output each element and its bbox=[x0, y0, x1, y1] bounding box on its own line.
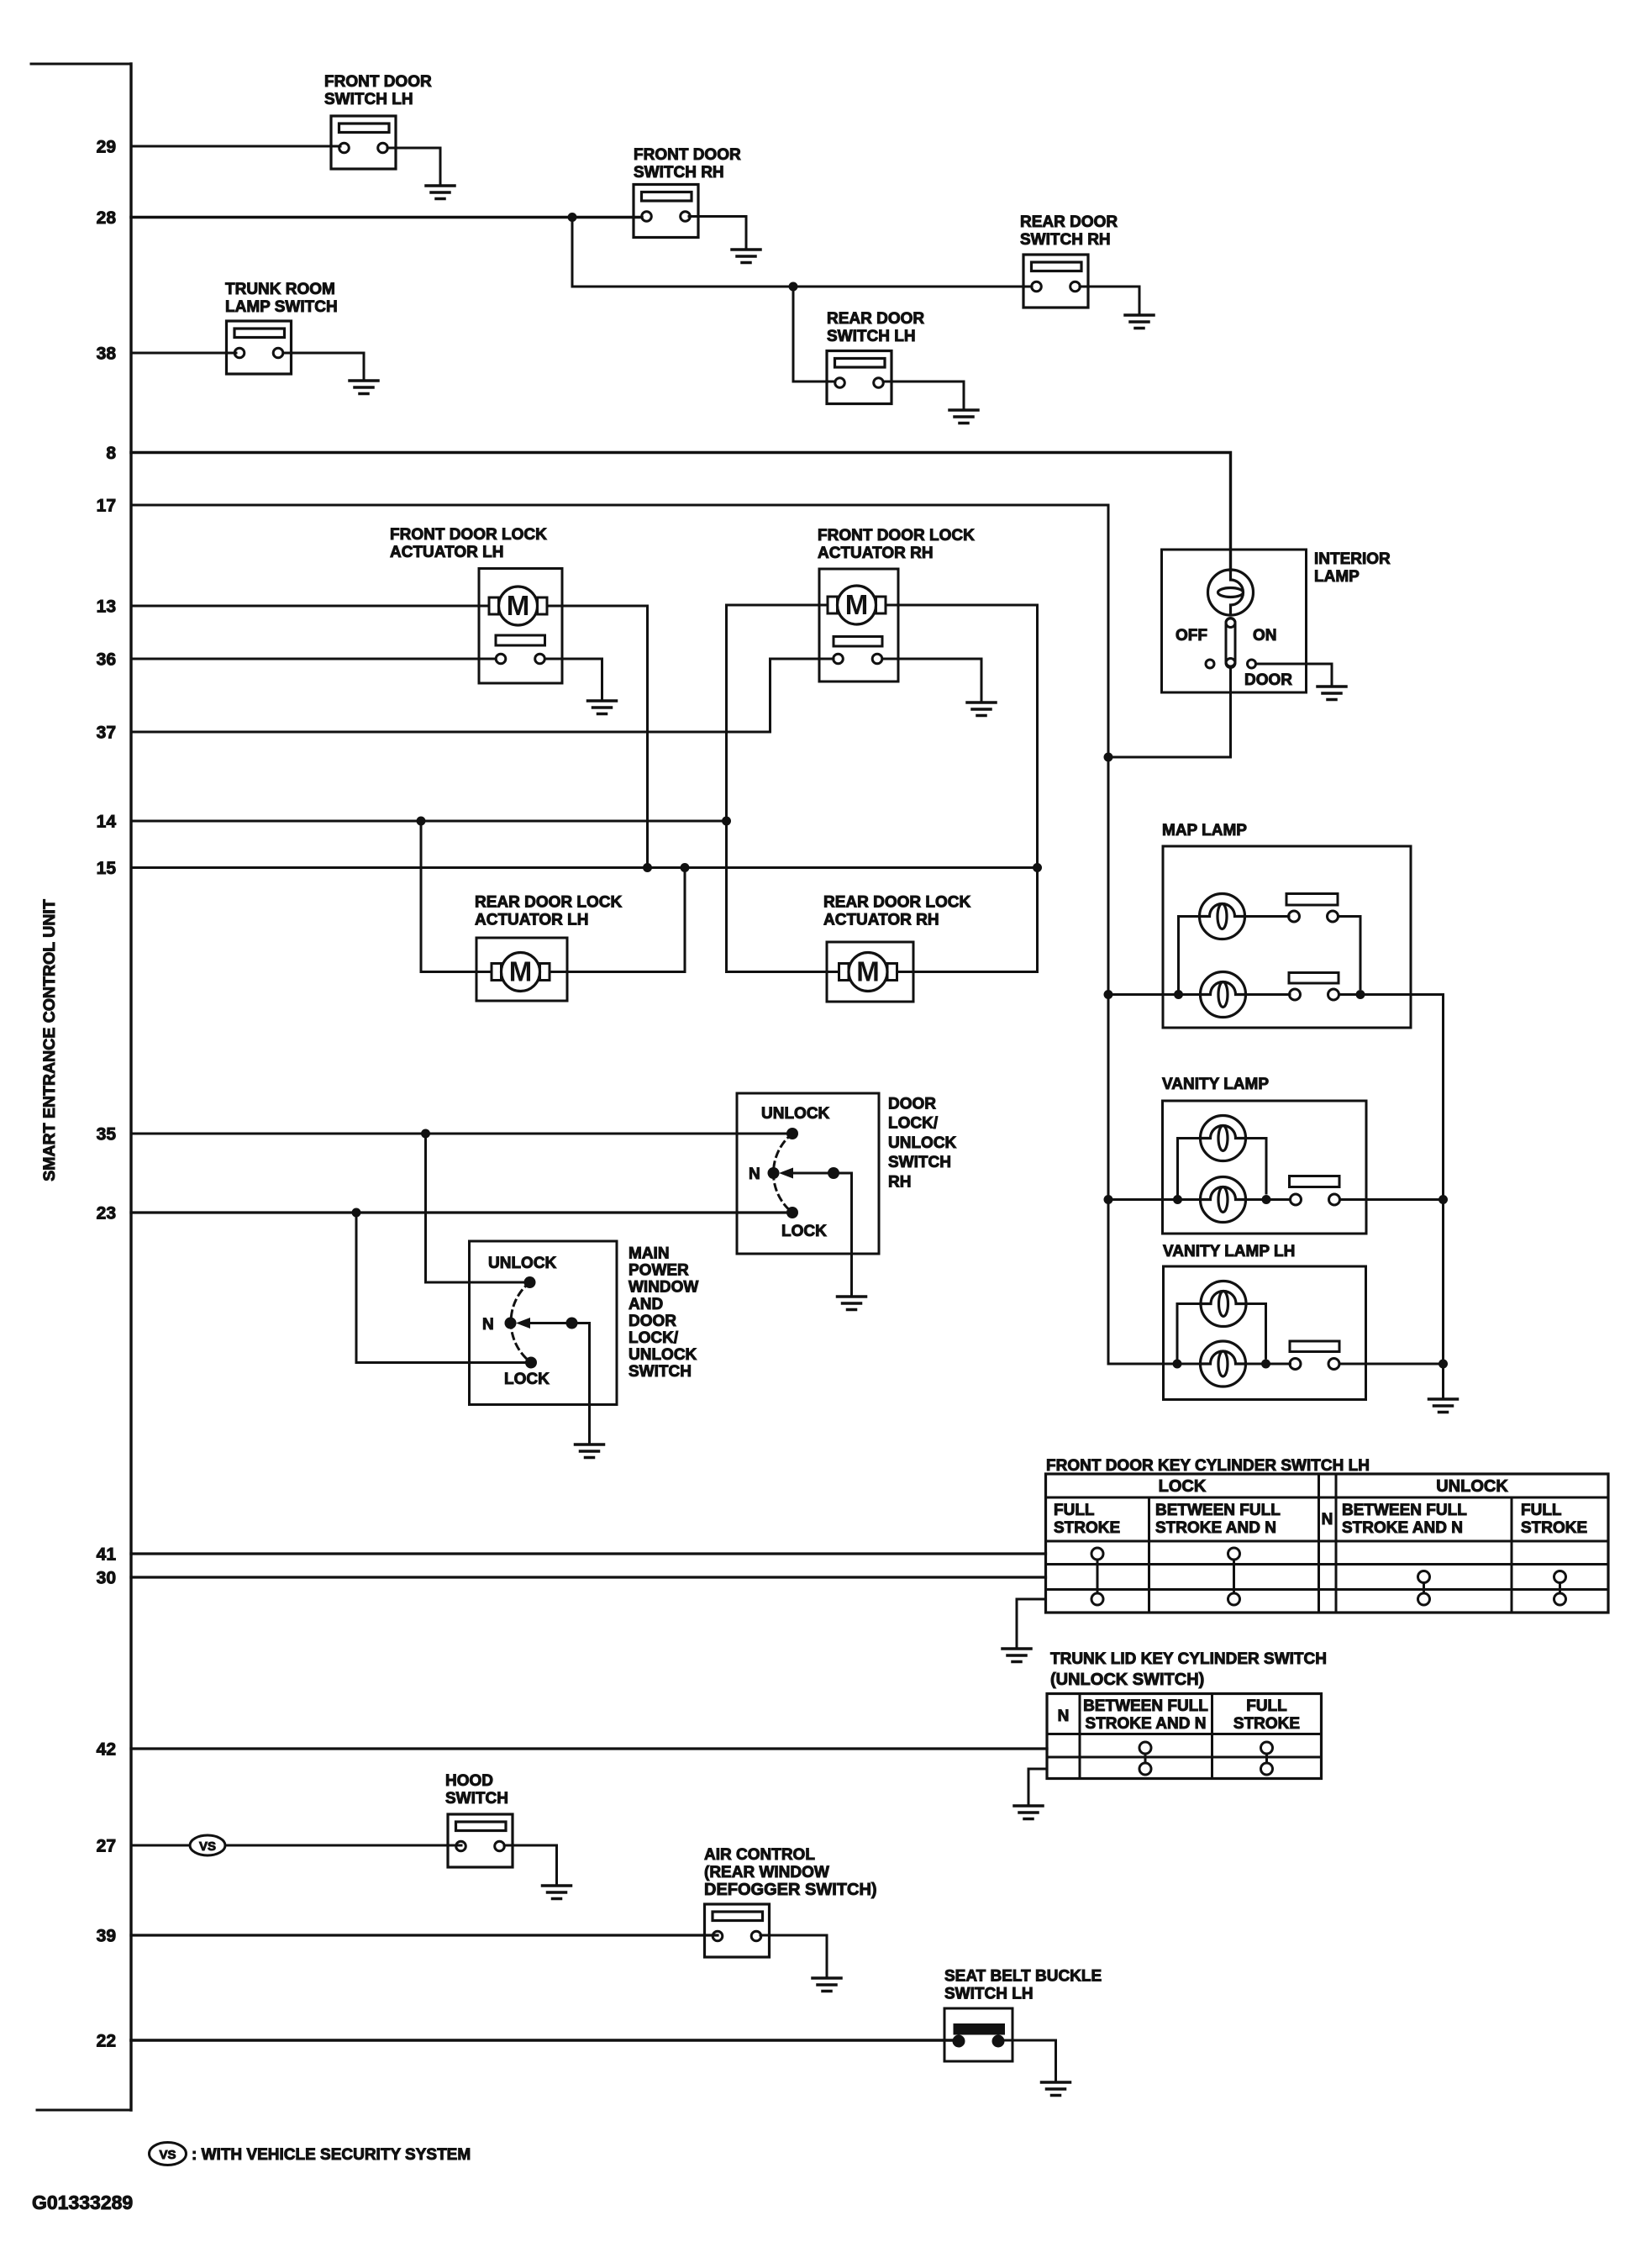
svg-text:: WITH VEHICLE SECURITY SYSTEM: : WITH VEHICLE SECURITY SYSTEM bbox=[192, 2146, 471, 2164]
node vanity LH bulb split bbox=[1173, 1360, 1182, 1369]
wire interior lamp ON contact to ground bbox=[1256, 664, 1332, 684]
key cylinder contact links bbox=[1097, 1560, 1099, 1593]
svg-text:MAP LAMP: MAP LAMP bbox=[1162, 822, 1247, 839]
ground G1 bbox=[426, 186, 455, 199]
switch RH contact LOCK bbox=[786, 1207, 798, 1218]
wire actuator LH contact to ground bbox=[545, 659, 602, 698]
motor M2 bbox=[828, 586, 886, 624]
svg-text:BETWEEN FULL: BETWEEN FULL bbox=[1083, 1697, 1208, 1715]
svg-text:39: 39 bbox=[97, 1927, 116, 1946]
svg-text:FRONT DOOR: FRONT DOOR bbox=[634, 146, 741, 164]
vanity lamp bulb B1 bbox=[1201, 1116, 1246, 1161]
key cylinder table frame bbox=[1046, 1474, 1609, 1613]
svg-text:LAMP: LAMP bbox=[1314, 568, 1360, 586]
key cylinder table column lines bbox=[1148, 1497, 1150, 1613]
node vanity bulb B1 join bbox=[1262, 1195, 1271, 1204]
node vanity LH bulb B1 join bbox=[1261, 1360, 1270, 1369]
wire front door switch LH to ground bbox=[387, 148, 440, 183]
svg-text:42: 42 bbox=[97, 1740, 116, 1760]
map lamp switch 1 contacts bbox=[1289, 911, 1300, 922]
wire motor M2 right lead down to line 15 bbox=[886, 605, 1038, 972]
svg-text:ACTUATOR RH: ACTUATOR RH bbox=[823, 912, 939, 929]
svg-text:FRONT DOOR LOCK: FRONT DOOR LOCK bbox=[390, 526, 547, 544]
wire branch line 28 down to rear door switches bbox=[572, 218, 1032, 287]
svg-text:REAR DOOR LOCK: REAR DOOR LOCK bbox=[475, 894, 623, 912]
rear door switch LH body bbox=[827, 351, 892, 404]
svg-text:TRUNK LID KEY CYLINDER SWITCH: TRUNK LID KEY CYLINDER SWITCH bbox=[1050, 1650, 1327, 1668]
legend VS symbol bbox=[150, 2143, 187, 2165]
wire trunk lid switch to ground bbox=[1028, 1769, 1047, 1803]
wire motor M3 to line 15 bbox=[550, 868, 685, 972]
interior lamp bulb bbox=[1208, 570, 1254, 615]
node line15 - front LH actuator bbox=[643, 863, 652, 872]
bus bottom stub bbox=[37, 2109, 131, 2112]
svg-text:UNLOCK: UNLOCK bbox=[488, 1255, 557, 1272]
wire pin 27 to VS connector bbox=[131, 1844, 190, 1847]
node lamp rail top bbox=[1104, 753, 1113, 762]
motor M4 bbox=[839, 953, 897, 992]
vanity LH switch contacts bbox=[1290, 1359, 1301, 1370]
wire vanity LH bulb B1 down bbox=[1246, 1304, 1266, 1359]
trunk lid contacts row 2 bbox=[1139, 1763, 1151, 1775]
trunk lid contacts row 1 bbox=[1139, 1742, 1151, 1754]
svg-text:POWER: POWER bbox=[629, 1262, 689, 1280]
vanity lamp box bbox=[1163, 1101, 1367, 1234]
ground G3 bbox=[1125, 315, 1154, 329]
svg-text:SWITCH: SWITCH bbox=[888, 1154, 951, 1171]
wire motor M2 left lead down to rear actuator RH bbox=[727, 605, 828, 972]
key cylinder contacts row 3 bbox=[1091, 1593, 1103, 1605]
svg-text:VS: VS bbox=[159, 2148, 176, 2162]
svg-text:17: 17 bbox=[97, 497, 116, 516]
wire air control switch to ground bbox=[760, 1935, 827, 1976]
svg-text:M: M bbox=[509, 956, 533, 987]
interior lamp switch lever bbox=[1226, 618, 1235, 666]
right collector rail lower bbox=[1442, 1200, 1444, 1365]
wire key cylinder switch to ground bbox=[1017, 1599, 1046, 1646]
interior lamp ON contact bbox=[1248, 660, 1256, 668]
wire pin 37 to actuator RH contact bbox=[131, 659, 834, 732]
svg-text:23: 23 bbox=[97, 1204, 116, 1223]
svg-text:UNLOCK: UNLOCK bbox=[629, 1346, 697, 1364]
vanity LH bulb B1 bbox=[1201, 1281, 1246, 1327]
ground G12 bbox=[1002, 1649, 1031, 1662]
ground G7 bbox=[967, 703, 996, 716]
front door lock actuator LH box bbox=[479, 569, 562, 684]
trunk lid table frame bbox=[1047, 1694, 1322, 1779]
switch RH wiper arm with arrow bbox=[786, 1172, 834, 1175]
svg-text:VANITY LAMP: VANITY LAMP bbox=[1162, 1076, 1269, 1093]
node line23 bbox=[352, 1208, 361, 1218]
svg-text:OFF: OFF bbox=[1176, 627, 1207, 645]
vanity LH bulb B2 bbox=[1201, 1341, 1246, 1387]
svg-text:REAR DOOR: REAR DOOR bbox=[827, 310, 924, 328]
vanity lamp bulb B2 bbox=[1201, 1177, 1246, 1223]
svg-text:REAR DOOR LOCK: REAR DOOR LOCK bbox=[823, 894, 971, 912]
svg-text:M: M bbox=[845, 589, 869, 620]
front door lock actuator RH box bbox=[819, 569, 898, 681]
wire map lamp upper branch bbox=[1179, 917, 1201, 995]
wire pin 38 to trunk room lamp switch bbox=[131, 352, 236, 355]
svg-text:30: 30 bbox=[97, 1569, 116, 1588]
map lamp switch 2 contacts bbox=[1290, 989, 1301, 1000]
wire vanity bulb B2 to switch bbox=[1246, 1198, 1291, 1201]
ground G14 bbox=[543, 1886, 571, 1899]
wire vanity LH row to ground junction bbox=[1339, 1363, 1444, 1366]
svg-text:N: N bbox=[749, 1166, 760, 1183]
hood switch body bbox=[448, 1814, 513, 1867]
wire pin 8 to interior lamp bbox=[131, 453, 1231, 571]
rear door switch RH body bbox=[1023, 255, 1088, 308]
wire pin 13 to front door lock actuator LH motor bbox=[131, 605, 489, 608]
wire main switch wiper to ground bbox=[572, 1323, 590, 1443]
svg-text:SWITCH RH: SWITCH RH bbox=[634, 164, 724, 182]
map lamp bulb B2 bbox=[1201, 972, 1246, 1018]
svg-text:UNLOCK: UNLOCK bbox=[1436, 1477, 1508, 1496]
svg-text:STROKE: STROKE bbox=[1521, 1519, 1587, 1537]
wire pin 30 to key cylinder switch bbox=[131, 1576, 1046, 1578]
wire pin 22 to seat belt buckle switch bbox=[131, 2039, 953, 2042]
front door switch RH body bbox=[634, 185, 698, 238]
svg-text:DOOR: DOOR bbox=[1244, 671, 1292, 689]
svg-text:SWITCH: SWITCH bbox=[445, 1790, 508, 1808]
svg-text:STROKE: STROKE bbox=[1233, 1715, 1300, 1733]
svg-text:N: N bbox=[1322, 1511, 1333, 1529]
map lamp switch 1 bar bbox=[1286, 894, 1338, 906]
switch RH contact UNLOCK bbox=[786, 1128, 798, 1139]
svg-text:14: 14 bbox=[97, 813, 117, 832]
svg-text:VS: VS bbox=[199, 1839, 216, 1854]
lamp feed rail bbox=[1107, 757, 1110, 1364]
front door lock actuator LH contacts bbox=[496, 654, 506, 664]
main switch contact N bbox=[505, 1318, 517, 1329]
svg-text:STROKE AND N: STROKE AND N bbox=[1155, 1519, 1276, 1537]
svg-text:LOCK: LOCK bbox=[504, 1371, 550, 1388]
svg-text:ACTUATOR LH: ACTUATOR LH bbox=[390, 544, 503, 561]
svg-text:STROKE: STROKE bbox=[1054, 1519, 1120, 1537]
svg-text:LOCK/: LOCK/ bbox=[888, 1115, 939, 1133]
wire VS connector to hood switch bbox=[225, 1844, 461, 1847]
svg-text:HOOD: HOOD bbox=[445, 1772, 493, 1790]
ground G5 bbox=[350, 381, 378, 394]
svg-text:FRONT DOOR KEY CYLINDER SWITCH: FRONT DOOR KEY CYLINDER SWITCH LH bbox=[1046, 1457, 1370, 1475]
wire map lamp feed row bbox=[1108, 993, 1200, 996]
front door lock actuator RH switch bar bbox=[834, 637, 882, 647]
ground G15 bbox=[813, 1978, 841, 1992]
svg-text:M: M bbox=[856, 956, 880, 987]
svg-text:FULL: FULL bbox=[1246, 1697, 1287, 1715]
wire pin 35 to door lock/unlock switch RH bbox=[131, 1133, 792, 1135]
svg-text:BETWEEN FULL: BETWEEN FULL bbox=[1155, 1502, 1281, 1519]
vanity lamp switch contacts bbox=[1291, 1194, 1302, 1205]
wire motor M1 to line 15 bbox=[547, 606, 648, 868]
switch RH wiper contact bbox=[828, 1167, 839, 1179]
node line14 - rear LH actuator bbox=[417, 817, 426, 826]
svg-text:29: 29 bbox=[97, 138, 116, 157]
svg-text:SWITCH LH: SWITCH LH bbox=[944, 1986, 1034, 2003]
node line15 - rear LH actuator bbox=[681, 863, 690, 872]
svg-text:AIR CONTROL: AIR CONTROL bbox=[704, 1846, 815, 1864]
node on line 28 bbox=[568, 213, 577, 222]
svg-text:37: 37 bbox=[97, 724, 116, 743]
svg-text:ACTUATOR RH: ACTUATOR RH bbox=[818, 545, 934, 562]
svg-text:LOCK/: LOCK/ bbox=[629, 1329, 679, 1347]
wire pin 15 bbox=[131, 866, 1038, 869]
svg-text:DEFOGGER SWITCH): DEFOGGER SWITCH) bbox=[704, 1881, 877, 1899]
svg-text:LOCK: LOCK bbox=[1159, 1477, 1207, 1496]
wire vanity bulb B1 down bbox=[1246, 1139, 1267, 1194]
door lock/unlock switch RH box bbox=[737, 1093, 879, 1254]
svg-text:41: 41 bbox=[97, 1545, 117, 1565]
wire vanity upper branch bbox=[1178, 1139, 1201, 1200]
wire map lamp row out to right rail bbox=[1339, 993, 1444, 996]
wire map bulb B2 to switch bbox=[1246, 993, 1290, 996]
front door lock actuator RH contacts bbox=[834, 654, 844, 664]
interior lamp box bbox=[1162, 550, 1307, 692]
ground G9 bbox=[838, 1297, 866, 1310]
wire map bulb B1 to switch 1 bbox=[1245, 915, 1290, 918]
ground G2 bbox=[732, 250, 760, 263]
wire seat belt switch to ground bbox=[1005, 2040, 1056, 2080]
wire rail corner into vanity LH row bbox=[1108, 1363, 1201, 1366]
trunk lid table column lines bbox=[1079, 1694, 1081, 1779]
wire vanity LH bulb B2 to switch bbox=[1246, 1363, 1291, 1366]
node map lamp bulb split bbox=[1174, 990, 1183, 999]
front door switch LH body bbox=[331, 116, 396, 169]
svg-text:DOOR: DOOR bbox=[888, 1096, 936, 1113]
svg-text:8: 8 bbox=[106, 444, 116, 463]
wire pin 29 to front door switch LH bbox=[131, 145, 340, 148]
svg-text:VANITY LAMP LH: VANITY LAMP LH bbox=[1163, 1243, 1295, 1260]
svg-text:(UNLOCK SWITCH): (UNLOCK SWITCH) bbox=[1050, 1671, 1204, 1689]
svg-text:INTERIOR: INTERIOR bbox=[1314, 550, 1391, 568]
wire motor M4 right bbox=[897, 971, 1038, 973]
node line15 - RH actuators bbox=[1033, 863, 1042, 872]
ground G4 bbox=[949, 410, 978, 424]
svg-text:LOCK: LOCK bbox=[781, 1223, 827, 1240]
wire switch RH wiper to ground bbox=[834, 1173, 852, 1294]
wire rear door switch LH to ground bbox=[883, 382, 964, 408]
wire branch down to rear door switch LH bbox=[793, 287, 835, 382]
svg-text:G01333289: G01333289 bbox=[32, 2192, 133, 2213]
wire line14 node down to motor M3 bbox=[421, 821, 491, 972]
bus top stub bbox=[31, 63, 131, 66]
wire actuator RH contact to ground bbox=[882, 659, 981, 700]
wire hood switch to ground bbox=[504, 1845, 557, 1883]
svg-text:SWITCH LH: SWITCH LH bbox=[324, 91, 413, 108]
svg-text:22: 22 bbox=[97, 2032, 116, 2051]
wire line23 branch to main switch LOCK bbox=[356, 1213, 531, 1363]
main switch dashed travel arc bbox=[511, 1282, 531, 1363]
motor M3 bbox=[492, 953, 550, 992]
wire pin 14 bbox=[131, 820, 727, 823]
svg-text:WINDOW: WINDOW bbox=[629, 1279, 698, 1297]
ground G13 bbox=[1014, 1806, 1043, 1819]
svg-text:UNLOCK: UNLOCK bbox=[761, 1105, 830, 1123]
wire vertical to motor M4 left bbox=[727, 971, 839, 973]
rear door lock actuator RH box bbox=[827, 942, 913, 1002]
wire node to interior lamp bottom bbox=[1108, 756, 1231, 759]
key cylinder contacts row 2 bbox=[1418, 1571, 1430, 1583]
map lamp switch 2 bar bbox=[1289, 973, 1339, 984]
main switch wiper contact bbox=[566, 1318, 578, 1329]
smart entrance control unit bus line bbox=[129, 64, 132, 2110]
svg-text:ON: ON bbox=[1253, 627, 1277, 645]
wire pin 36 to actuator LH contact bbox=[131, 658, 496, 660]
svg-text:28: 28 bbox=[97, 208, 117, 228]
svg-text:N: N bbox=[1058, 1708, 1070, 1725]
right collector rail upper bbox=[1442, 995, 1444, 1200]
node lamps ground junction bbox=[1439, 1360, 1448, 1369]
svg-text:N: N bbox=[482, 1316, 494, 1334]
rear door lock actuator LH box bbox=[476, 938, 567, 1001]
wire pin 28 to front door switch RH bbox=[131, 216, 642, 218]
wire vanity lamp feed row bbox=[1108, 1198, 1200, 1201]
node vanity bulb split bbox=[1173, 1195, 1182, 1204]
svg-text:RH: RH bbox=[888, 1173, 911, 1191]
vanity lamp LH box bbox=[1164, 1266, 1366, 1400]
key cylinder contacts row 1 bbox=[1091, 1548, 1103, 1560]
seat belt buckle switch contacts bbox=[954, 2023, 1006, 2035]
ground G10 bbox=[576, 1444, 604, 1458]
main switch contact LOCK bbox=[525, 1357, 537, 1369]
node rear switch branch bbox=[789, 282, 798, 292]
wire map switch1 down to row bbox=[1339, 917, 1361, 989]
wire trunk room lamp switch to ground bbox=[283, 353, 364, 378]
svg-text:LAMP SWITCH: LAMP SWITCH bbox=[225, 298, 338, 316]
main power window switch box bbox=[470, 1241, 618, 1405]
trunk lid table row lines bbox=[1047, 1733, 1322, 1735]
svg-text:REAR DOOR: REAR DOOR bbox=[1020, 213, 1118, 231]
ground G11 bbox=[1429, 1399, 1458, 1413]
svg-text:36: 36 bbox=[97, 650, 116, 670]
svg-text:BETWEEN FULL: BETWEEN FULL bbox=[1342, 1502, 1467, 1519]
ground G16 bbox=[1042, 2082, 1070, 2096]
svg-text:M: M bbox=[507, 590, 530, 621]
wire vanity row out to right rail bbox=[1340, 1198, 1444, 1201]
wire rear door switch RH to ground bbox=[1080, 287, 1139, 313]
switch RH dashed travel arc bbox=[773, 1134, 792, 1213]
motor M1 bbox=[489, 587, 547, 625]
svg-text:SEAT BELT BUCKLE: SEAT BELT BUCKLE bbox=[944, 1968, 1102, 1986]
svg-text:FRONT DOOR: FRONT DOOR bbox=[324, 73, 432, 91]
wire pin 42 to trunk lid switch bbox=[131, 1747, 1047, 1750]
VS option symbol bbox=[190, 1835, 225, 1855]
map lamp bulb B1 bbox=[1200, 894, 1245, 939]
node map lamp switch1 join bbox=[1356, 990, 1365, 999]
svg-text:SMART ENTRANCE CONTROL UNIT: SMART ENTRANCE CONTROL UNIT bbox=[40, 899, 59, 1181]
svg-text:35: 35 bbox=[97, 1125, 117, 1145]
svg-text:27: 27 bbox=[97, 1837, 116, 1856]
svg-text:STROKE AND N: STROKE AND N bbox=[1342, 1519, 1463, 1537]
wire lamps ground stem bbox=[1442, 1364, 1444, 1397]
svg-text:FRONT DOOR LOCK: FRONT DOOR LOCK bbox=[818, 527, 975, 545]
node line35 bbox=[421, 1129, 430, 1139]
wire pin 41 to key cylinder switch bbox=[131, 1552, 1046, 1555]
wire vanity LH upper branch bbox=[1177, 1304, 1201, 1365]
switch RH contact N bbox=[768, 1167, 780, 1179]
node right rail vanity bbox=[1439, 1195, 1448, 1204]
seat belt buckle switch box bbox=[944, 2008, 1012, 2061]
front door lock actuator LH switch bar bbox=[496, 635, 545, 645]
key cylinder table row lines bbox=[1046, 1497, 1609, 1499]
ground G6 bbox=[588, 701, 617, 714]
trunk room lamp switch body bbox=[227, 321, 292, 374]
interior lamp OFF contact bbox=[1206, 660, 1214, 668]
svg-text:FULL: FULL bbox=[1054, 1502, 1095, 1519]
wire front door switch RH to ground bbox=[689, 217, 746, 248]
wire line35 branch to main switch UNLOCK bbox=[426, 1134, 530, 1282]
svg-text:13: 13 bbox=[97, 597, 116, 617]
svg-text:SWITCH RH: SWITCH RH bbox=[1020, 231, 1111, 249]
svg-text:(REAR WINDOW: (REAR WINDOW bbox=[704, 1864, 829, 1881]
svg-text:DOOR: DOOR bbox=[629, 1313, 676, 1330]
air control switch body bbox=[705, 1904, 770, 1957]
ground G8 bbox=[1318, 687, 1346, 700]
vanity LH switch bar bbox=[1290, 1341, 1339, 1352]
svg-text:STROKE AND N: STROKE AND N bbox=[1086, 1715, 1207, 1733]
svg-text:SWITCH LH: SWITCH LH bbox=[827, 328, 916, 345]
wire pin 23 to door lock/unlock switch RH bbox=[131, 1211, 792, 1213]
svg-text:FULL: FULL bbox=[1521, 1502, 1562, 1519]
wire pin 39 to air control switch bbox=[131, 1934, 718, 1936]
svg-text:38: 38 bbox=[97, 345, 117, 364]
wire pin 17 to lamp feed rail bbox=[131, 505, 1108, 757]
node rail-map lamp bbox=[1104, 990, 1113, 999]
vanity lamp switch bar bbox=[1290, 1176, 1340, 1187]
svg-text:ACTUATOR LH: ACTUATOR LH bbox=[475, 912, 588, 929]
svg-text:AND: AND bbox=[629, 1296, 663, 1313]
svg-text:SWITCH: SWITCH bbox=[629, 1363, 692, 1381]
main switch contact UNLOCK bbox=[524, 1276, 536, 1288]
svg-text:MAIN: MAIN bbox=[629, 1245, 670, 1263]
svg-text:15: 15 bbox=[97, 859, 117, 878]
map lamp box bbox=[1163, 846, 1411, 1028]
svg-text:TRUNK ROOM: TRUNK ROOM bbox=[225, 281, 335, 298]
node rail-vanity lamp bbox=[1104, 1195, 1113, 1204]
main switch wiper arm with arrow bbox=[523, 1322, 572, 1324]
wire interior lamp bottom lead bbox=[1229, 668, 1232, 757]
node line14 - RH actuators bbox=[722, 817, 731, 826]
trunk lid contact links bbox=[1144, 1754, 1147, 1763]
svg-text:UNLOCK: UNLOCK bbox=[888, 1134, 957, 1152]
